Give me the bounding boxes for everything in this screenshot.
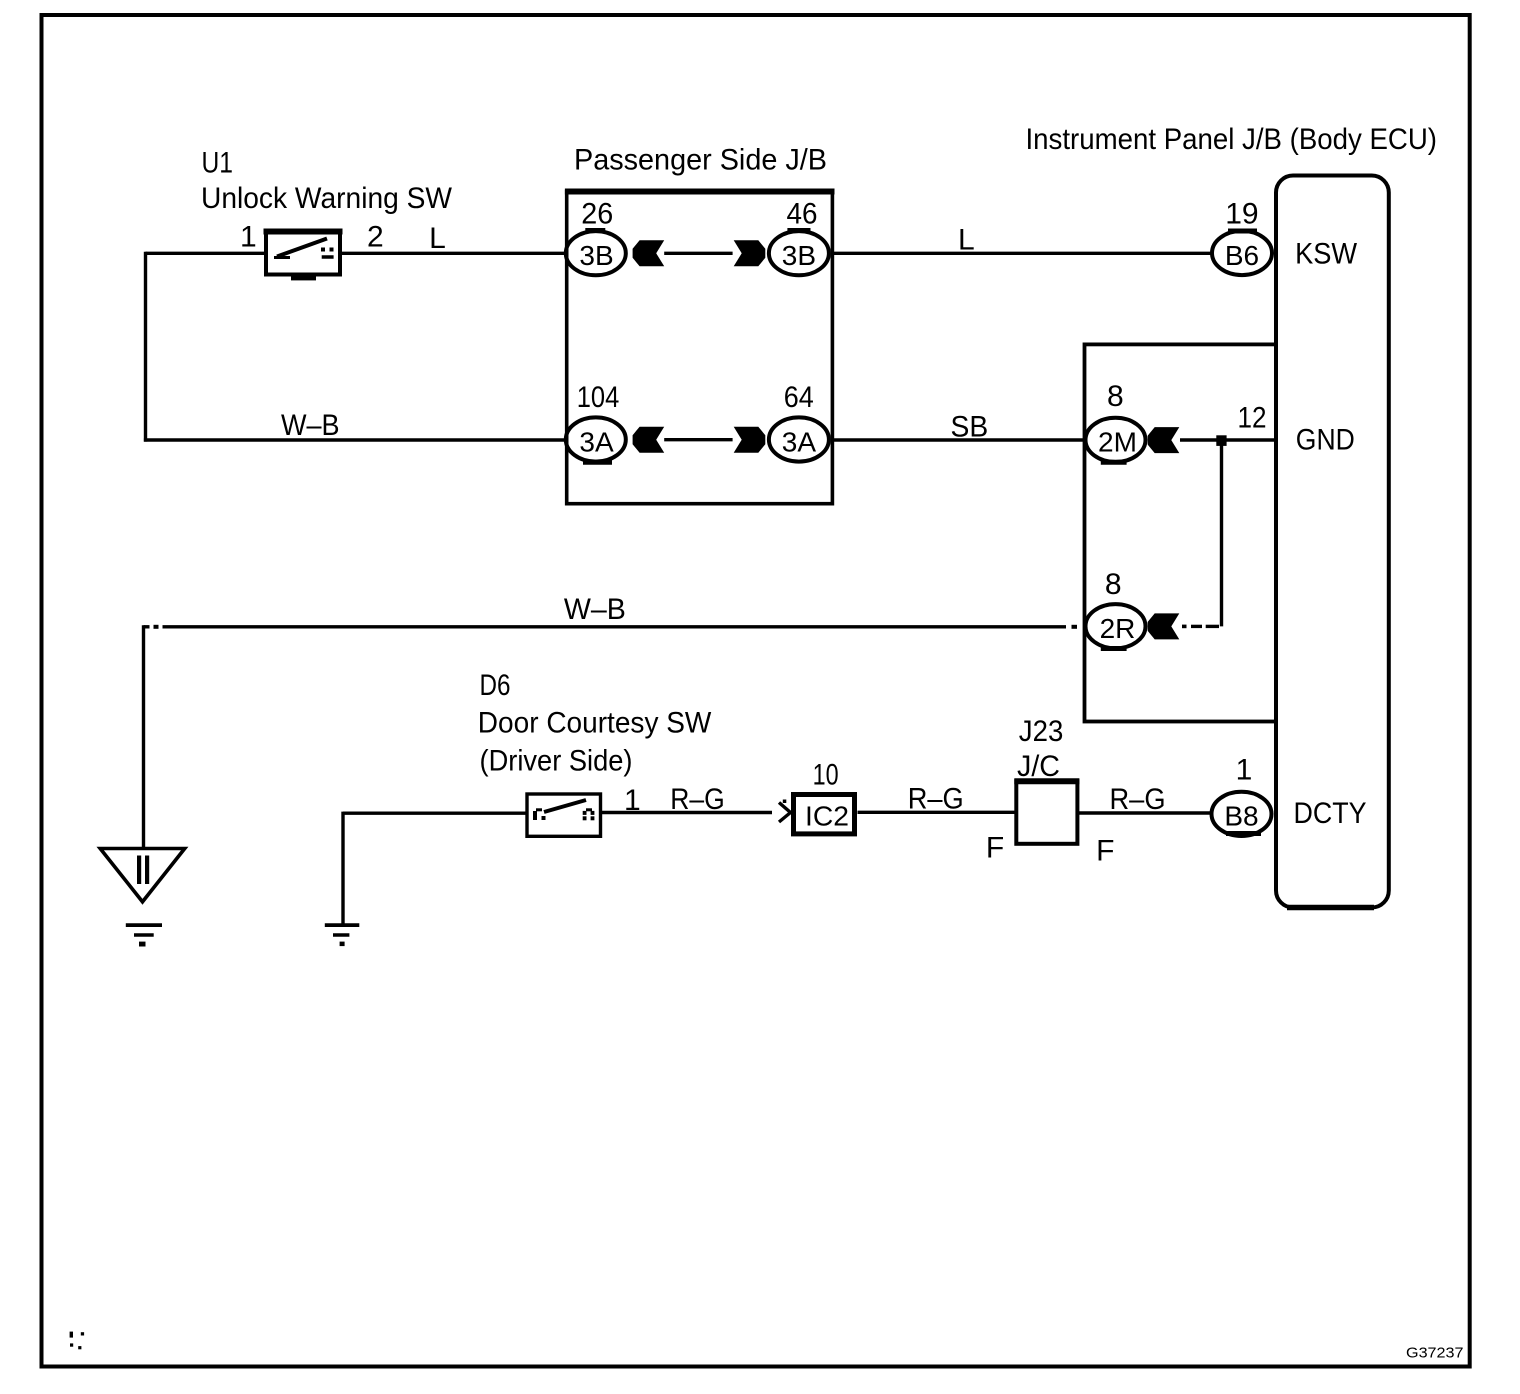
- connector arrow female at 2R: [1148, 613, 1180, 639]
- wire L Passenger J/B 3B to Body ECU B6: [832, 224, 1211, 257]
- wire W-B long run to 2R: [144, 593, 1078, 629]
- wire vertical D6 ground: [341, 812, 344, 925]
- connector 3A left (pin 104): [566, 417, 626, 462]
- junction block Passenger Side J/B: [565, 144, 835, 504]
- svg-text:Instrument Panel J/B (Body ECU: Instrument Panel J/B (Body ECU): [1026, 123, 1438, 156]
- earth ground symbol right: [325, 925, 360, 946]
- svg-text:3B: 3B: [579, 240, 613, 271]
- svg-text:L: L: [958, 224, 975, 257]
- svg-text:12: 12: [1238, 402, 1267, 435]
- wire R-G D6 to IC2: [601, 783, 773, 816]
- wire between 3A arrows: [664, 438, 732, 441]
- Body ECU block: [1276, 176, 1389, 908]
- svg-text:Door Courtesy SW: Door Courtesy SW: [478, 707, 712, 740]
- svg-text:G37237: G37237: [1406, 1345, 1464, 1362]
- wire L U1 pin2 to Passenger J/B 3B: [342, 222, 565, 255]
- svg-text:U1: U1: [202, 147, 234, 180]
- svg-text:3A: 3A: [782, 426, 817, 457]
- svg-text:2R: 2R: [1100, 613, 1136, 644]
- junction block 2M/2R box: [1085, 344, 1277, 721]
- connector 3B left (pin 26): [566, 231, 626, 276]
- svg-text:GND: GND: [1296, 424, 1355, 457]
- junction dot node 12: [1216, 435, 1226, 446]
- wire vertical left loop U1: [144, 252, 147, 442]
- svg-text:F: F: [986, 832, 1004, 865]
- svg-text:2M: 2M: [1098, 427, 1137, 458]
- connector arrow female at 3A left: [633, 427, 665, 453]
- svg-text:J/C: J/C: [1017, 750, 1060, 783]
- junction block connector IC2 (pin 10): [794, 795, 855, 834]
- svg-text:DCTY: DCTY: [1294, 797, 1367, 830]
- svg-text:1: 1: [1236, 754, 1253, 787]
- connector 2M (pin 8): [1086, 418, 1146, 462]
- svg-text:R–G: R–G: [1110, 783, 1166, 816]
- connector 3B right (pin 46): [769, 231, 829, 276]
- wire R-G IC2 to J23: [858, 783, 1017, 816]
- svg-text:L: L: [429, 222, 446, 255]
- connector B6 (pin 19): [1212, 231, 1272, 275]
- wire SB Passenger J/B 3A to 2M: [832, 411, 1084, 444]
- svg-text:SB: SB: [951, 411, 989, 444]
- connector arrow male half at IC2: [779, 800, 791, 823]
- svg-text:R–G: R–G: [670, 783, 725, 816]
- connector arrow male at 3A right: [734, 427, 766, 453]
- connector arrow female at 3B left: [633, 240, 665, 266]
- svg-text:64: 64: [784, 381, 814, 414]
- connector arrow female at 2M: [1148, 427, 1180, 453]
- wire vertical junction to 2R row: [1220, 440, 1223, 626]
- svg-text:B8: B8: [1224, 801, 1258, 832]
- wire from U1 pin1 left to vertical: [146, 252, 265, 255]
- svg-text:46: 46: [787, 198, 818, 231]
- svg-text:Unlock Warning SW: Unlock Warning SW: [201, 182, 453, 215]
- svg-text:8: 8: [1107, 380, 1124, 413]
- svg-text:D6: D6: [480, 669, 511, 702]
- svg-text:10: 10: [813, 759, 839, 792]
- svg-text:8: 8: [1105, 568, 1122, 601]
- svg-text:B6: B6: [1225, 240, 1259, 271]
- registration dots bottom left: [70, 1332, 85, 1350]
- connector arrow male at 3B right: [734, 240, 766, 266]
- svg-text:(Driver Side): (Driver Side): [480, 745, 633, 778]
- wire between 3B arrows: [664, 252, 732, 255]
- component D6 Door Courtesy SW (Driver Side): [478, 669, 712, 836]
- svg-text:IC2: IC2: [805, 801, 849, 832]
- connector 3A right (pin 64): [769, 417, 829, 461]
- svg-text:R–G: R–G: [908, 783, 964, 816]
- svg-text:Passenger Side J/B: Passenger Side J/B: [574, 144, 827, 177]
- wire 2M to GND pin 12: [1180, 438, 1276, 441]
- wire W-B U1 pin1 to Passenger J/B 3A: [144, 409, 565, 442]
- svg-text:26: 26: [581, 198, 613, 231]
- Body ECU thick bottom edge: [1287, 905, 1374, 911]
- svg-text:W–B: W–B: [564, 593, 626, 626]
- connector B8 (pin 1): [1212, 792, 1272, 836]
- svg-text:F: F: [1096, 835, 1114, 868]
- wire ground to D6: [343, 812, 527, 815]
- dashed wire to 2R arrow: [1182, 625, 1219, 629]
- connector 2R (pin 8): [1086, 604, 1146, 648]
- svg-text:104: 104: [577, 381, 620, 414]
- svg-text:1: 1: [240, 221, 257, 254]
- svg-text:W–B: W–B: [281, 409, 340, 442]
- earth ground symbol left: [126, 925, 162, 946]
- wire R-G J23 to B8: [1077, 783, 1211, 816]
- svg-text:3A: 3A: [579, 426, 614, 457]
- component J23 J/C: [1014, 715, 1079, 844]
- svg-text:3B: 3B: [782, 240, 816, 271]
- component U1 Unlock Warning SW: [201, 147, 453, 281]
- svg-text:2: 2: [367, 221, 384, 254]
- svg-text:J23: J23: [1019, 715, 1064, 748]
- ground triangle II: [100, 849, 185, 902]
- svg-text:19: 19: [1225, 198, 1258, 231]
- wire vertical W-B down to ground triangle: [142, 625, 145, 849]
- svg-text:KSW: KSW: [1295, 238, 1358, 271]
